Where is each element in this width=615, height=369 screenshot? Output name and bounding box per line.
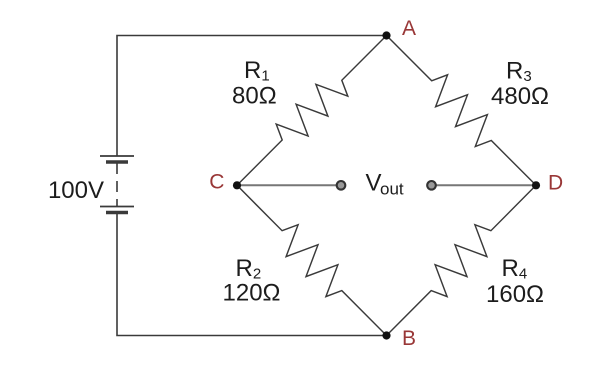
svg-text:D: D xyxy=(548,171,563,194)
wire Vout right terminal to D xyxy=(434,184,537,186)
svg-text:120Ω: 120Ω xyxy=(223,280,281,307)
resistor R1 xyxy=(237,36,387,186)
svg-text:B: B xyxy=(402,327,416,350)
Vout right terminal dot xyxy=(427,181,436,190)
svg-text:C: C xyxy=(209,170,224,193)
node D dot xyxy=(532,181,540,189)
resistor R3 xyxy=(387,36,537,186)
battery 100V xyxy=(100,156,134,213)
wire: battery bottom to node B xyxy=(117,214,387,336)
node A dot xyxy=(382,31,390,39)
svg-text:160Ω: 160Ω xyxy=(486,281,544,308)
resistor R2 xyxy=(237,185,387,335)
node C dot xyxy=(233,181,241,189)
wire C to Vout left terminal xyxy=(237,184,339,186)
node B dot xyxy=(382,331,390,339)
svg-text:80Ω: 80Ω xyxy=(232,83,277,110)
svg-text:100V: 100V xyxy=(48,177,104,204)
Vout left terminal dot xyxy=(337,181,346,190)
svg-text:480Ω: 480Ω xyxy=(491,83,549,110)
resistor R4 xyxy=(387,185,537,335)
wire: battery top to node A xyxy=(117,36,387,157)
svg-text:A: A xyxy=(402,17,416,40)
